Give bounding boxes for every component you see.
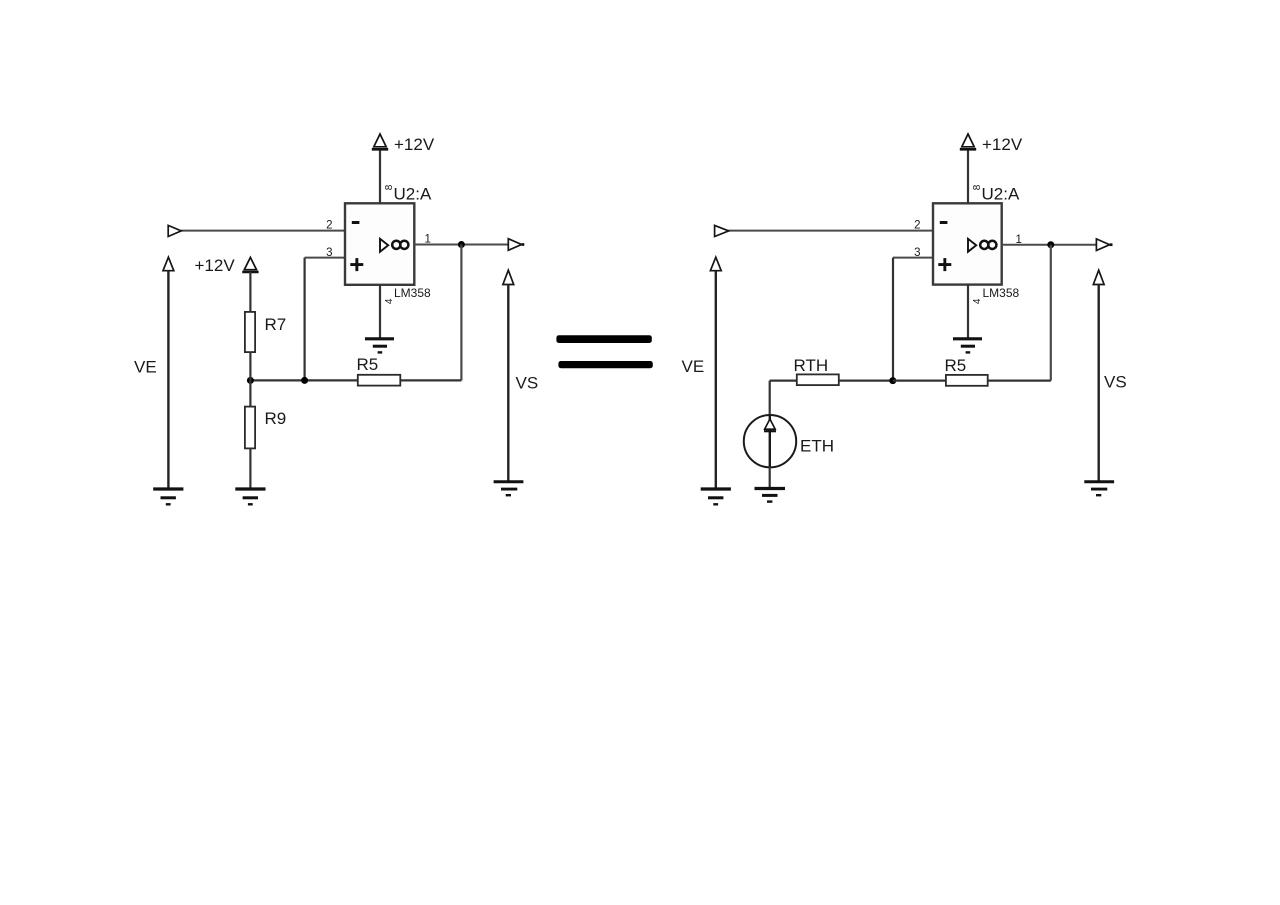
wire op-amp output (right) (1002, 244, 1097, 246)
junction node RTH/pin3/R5 (right) (889, 377, 896, 384)
op-amp minus symbol (left) (352, 221, 360, 224)
svg-text:ETH: ETH (800, 437, 834, 456)
svg-text:2: 2 (326, 220, 332, 232)
op-amp buffer triangle glyph (right) (968, 239, 976, 252)
wire input to pin 2 (left) (181, 230, 345, 232)
svg-text:4: 4 (972, 298, 983, 304)
wire R5 to feedback (left) (400, 379, 461, 381)
junction output node (right) (1047, 241, 1054, 248)
resistor R5 (right) body (946, 375, 988, 386)
op-amp plus symbol (right) (938, 263, 951, 266)
resistor R9 body (245, 407, 255, 449)
wire R9 to ground (249, 448, 251, 489)
terminal arrow VE (right) (710, 257, 721, 271)
voltage source ETH circle (744, 415, 796, 467)
ground under op-amp (left) (365, 337, 394, 340)
svg-text:R9: R9 (265, 409, 287, 428)
wire input to pin 2 (right) (729, 230, 934, 232)
output terminal arrow (left) (508, 239, 521, 251)
svg-text:2: 2 (914, 220, 920, 232)
ground under op-amp (right) (953, 337, 982, 340)
op-amp U2:A (left) body (345, 203, 414, 284)
junction node pin3 branch (left) (301, 377, 308, 384)
ground under R9 (235, 487, 265, 490)
wire RTH to node (right) (839, 380, 893, 382)
equivalence bar top (556, 335, 651, 343)
wire node to R9 (249, 380, 251, 406)
equivalence bar bottom (558, 361, 652, 368)
wire pin 4 to ground (left) (379, 285, 381, 339)
svg-text:1: 1 (425, 234, 431, 246)
svg-text:4: 4 (384, 298, 395, 304)
svg-text:VS: VS (1104, 373, 1127, 392)
svg-text:+12V: +12V (195, 256, 236, 275)
wire VE vertical (right) (715, 271, 717, 489)
junction node divider (left) (247, 377, 254, 384)
wire feedback vertical (left) (460, 245, 462, 381)
svg-text:LM358: LM358 (394, 286, 431, 300)
svg-text:+12V: +12V (982, 135, 1023, 154)
wire pin 4 to ground (right) (967, 285, 969, 339)
svg-text:U2:A: U2:A (394, 184, 432, 203)
ground under VE (left) (153, 487, 183, 490)
terminal arrow VE (left) (163, 257, 174, 271)
wire through ETH (769, 416, 771, 467)
terminal arrow VS (left) (503, 270, 514, 284)
wire VS vertical (right) (1097, 285, 1099, 482)
wire VS vertical (left) (507, 285, 509, 482)
op-amp buffer triangle glyph (left) (380, 239, 388, 252)
wire pin 3 horizontal (right) (893, 257, 933, 259)
resistor R5 (left) body (358, 375, 401, 386)
op-amp plus symbol (left) (350, 263, 363, 266)
terminal arrow VS (right) (1093, 270, 1104, 284)
junction output node (left) (458, 241, 465, 248)
wire R7 to node (249, 352, 251, 380)
power arrow +12V op-amp (right) (962, 134, 974, 147)
svg-text:R7: R7 (265, 315, 287, 334)
ground under VE (right) (701, 487, 731, 490)
arrow inside ETH (765, 419, 776, 429)
wire +12V to R7 (249, 272, 251, 312)
op-amp infinity glyph (right) (980, 241, 988, 249)
wire pin 3 vertical (left) (304, 258, 306, 381)
wire pin 3 horizontal (left) (305, 257, 345, 259)
output terminal arrow (right) (1096, 239, 1109, 251)
svg-text:VE: VE (134, 357, 157, 376)
power arrow +12V op-amp (left) (374, 134, 386, 147)
op-amp infinity glyph (left) (392, 241, 400, 249)
ground under VS (right) (1084, 480, 1114, 483)
power arrow +12V for R7 (244, 257, 256, 269)
op-amp minus symbol (right) (940, 221, 948, 224)
svg-text:VE: VE (682, 357, 705, 376)
wire VE vertical (left) (167, 271, 169, 489)
svg-text:R5: R5 (945, 356, 967, 375)
wire node row to R5 (left) (250, 379, 357, 381)
ground under ETH (755, 487, 786, 490)
svg-text:RTH: RTH (794, 356, 829, 375)
svg-text:R5: R5 (357, 355, 379, 374)
input terminal arrow (right) (715, 225, 729, 236)
svg-text:1: 1 (1016, 234, 1022, 246)
wire RTH down to ETH (769, 381, 771, 416)
input terminal arrow (left) (168, 225, 181, 236)
svg-text:8: 8 (972, 184, 983, 190)
wire +12V supply to op-amp (right) (967, 149, 969, 203)
wire op-amp output (left) (414, 244, 508, 246)
wire node to R5 (right) (893, 380, 946, 382)
wire ETH to ground (769, 467, 771, 489)
ground under VS (left) (494, 480, 524, 483)
svg-text:8: 8 (384, 184, 395, 190)
wire R5 to feedback (right) (988, 380, 1051, 382)
resistor RTH body (797, 374, 839, 385)
wire pin 3 vertical (right) (892, 258, 894, 381)
wire +12V supply to op-amp (left) (379, 149, 381, 203)
op-amp U2:A (right) body (933, 203, 1002, 284)
svg-text:LM358: LM358 (983, 286, 1020, 300)
svg-text:U2:A: U2:A (982, 184, 1020, 203)
wire feedback vertical (right) (1050, 245, 1052, 381)
resistor R7 body (245, 312, 255, 352)
wire RTH corner to body (right) (770, 380, 797, 382)
svg-text:VS: VS (516, 373, 539, 392)
svg-text:+12V: +12V (394, 135, 435, 154)
